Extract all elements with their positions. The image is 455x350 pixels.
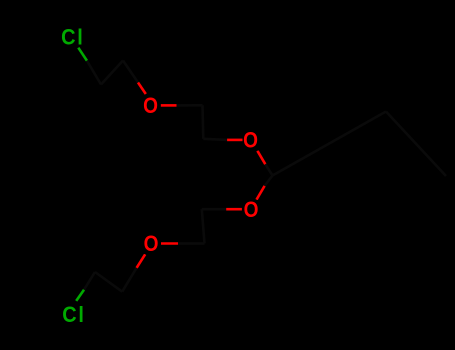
svg-text:Cl: Cl [61, 25, 84, 49]
svg-text:O: O [243, 128, 258, 153]
svg-text:Cl: Cl [62, 303, 85, 327]
svg-text:O: O [244, 197, 259, 222]
svg-text:O: O [143, 94, 158, 119]
svg-text:O: O [144, 232, 159, 257]
